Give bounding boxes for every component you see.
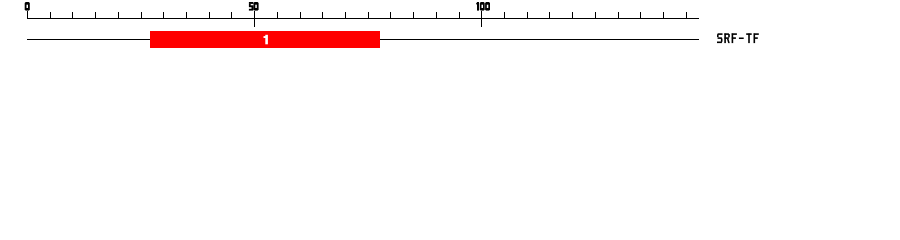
R bbox=[724, 33, 730, 43]
label 0 bbox=[25, 2, 30, 11]
S bbox=[717, 33, 723, 43]
F bbox=[732, 33, 737, 43]
minor ticks bbox=[50, 12, 687, 18]
F2 bbox=[754, 33, 759, 43]
label 50 bbox=[249, 2, 259, 11]
domain name SRF-TF bbox=[717, 33, 759, 43]
major tick 0 bbox=[27, 11, 28, 19]
major tick 50 bbox=[254, 11, 255, 27]
domain box SRF-TF bbox=[150, 31, 380, 48]
label 100 bbox=[476, 2, 490, 11]
dash bbox=[739, 38, 744, 40]
major tick 100 bbox=[481, 11, 482, 27]
background bbox=[0, 0, 900, 58]
T bbox=[746, 33, 752, 43]
sequence line bbox=[27, 39, 699, 40]
domain number 1 bbox=[264, 35, 268, 45]
ruler line bbox=[27, 18, 699, 19]
